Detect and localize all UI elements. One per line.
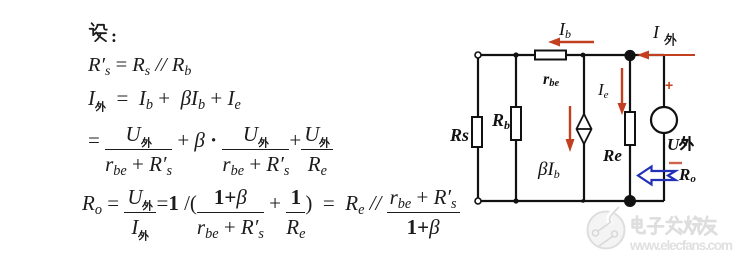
svg-text:βIb: βIb: [537, 159, 560, 181]
dependent source beta-Ib diamond: [577, 114, 592, 144]
resistor r_be: [535, 51, 566, 60]
svg-text:Rs: Rs: [449, 125, 469, 145]
wire Re branch: [629, 55, 631, 201]
node Re top (big): [624, 50, 635, 61]
resistor Re: [625, 112, 635, 145]
watermark logo: [588, 206, 625, 249]
line3 Iwai = Ib + bIb + Ie: [88, 86, 241, 111]
svg-text:Ro: Ro: [678, 165, 696, 185]
svg-text:U: U: [667, 135, 680, 154]
terminal bottom-left: [475, 198, 481, 204]
wire bottom rail: [478, 200, 664, 202]
node Rb bottom: [513, 198, 518, 203]
label I-wai top right: [652, 22, 676, 45]
voltage source U-wai circle: [651, 107, 677, 133]
wire Rb branch: [515, 55, 517, 201]
arrow Ie current: [618, 68, 627, 115]
resistor Rb: [511, 107, 521, 140]
arrow Ro blue: [638, 167, 676, 185]
arrow dependent source current: [566, 106, 575, 152]
wire right source branch: [663, 55, 665, 201]
svg-text:Ie: Ie: [597, 80, 609, 101]
terminal top-left: [475, 52, 481, 58]
resistor Rs: [472, 117, 482, 147]
node Rb top: [513, 52, 518, 57]
node source bottom: [581, 199, 585, 203]
svg-text:I: I: [652, 22, 660, 42]
watermark text dianzifashaoyou: [633, 216, 717, 234]
svg-text:Re: Re: [602, 146, 622, 165]
svg-text:+: +: [665, 77, 673, 93]
line5 Ro = Uwai/Iwai = 1/((1+b)/(rbe+R's)+1/Re) = Re // (rbe+R's)/(1+b): [82, 187, 460, 238]
node after r_be: [581, 53, 586, 58]
wire left port branch: [477, 55, 479, 201]
arrow I-wai current: [637, 51, 695, 60]
svg-text:Rb: Rb: [491, 110, 510, 132]
wire top rail: [478, 54, 664, 56]
arrow Ib current: [548, 38, 594, 47]
label U-wai: [667, 135, 693, 154]
node Re bottom (big): [624, 195, 636, 207]
line4 = Uwai/(rbe+R's) + b·Uwai/(rbe+R's) + Uwai/Re: [88, 124, 333, 175]
line1 she:: [88, 22, 117, 47]
wire dependent-source branch: [583, 55, 585, 201]
svg-text:rbe: rbe: [543, 71, 559, 89]
svg-text:Ib: Ib: [558, 19, 571, 41]
glyph defs: [0, 0, 1, 1]
line2 R's = Rs // Rb: [88, 54, 191, 77]
label minus sign: [669, 162, 682, 164]
svg-text:www.elecfans.com: www.elecfans.com: [629, 238, 733, 253]
